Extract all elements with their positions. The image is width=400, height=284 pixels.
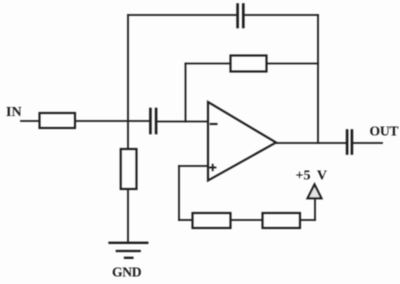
wire from IN [21, 120, 39, 122]
wire right vertical (feedback bus) [317, 15, 319, 143]
resistor R1 (input series) [40, 113, 76, 128]
wire ground resistor lead [127, 189, 129, 242]
resistor R5 (to ground) [121, 149, 137, 189]
svg-text:IN: IN [6, 105, 22, 120]
wire left vertical of bottom loop [178, 166, 180, 220]
svg-text:+5V: +5V [296, 169, 328, 184]
capacitor C1 (top feedback) [238, 5, 244, 28]
capacitor C2 (input coupling) [150, 109, 156, 133]
wire R2 to right vertical [267, 63, 319, 65]
ground [110, 243, 148, 258]
svg-text:OUT: OUT [370, 124, 399, 139]
op-amp minus marker [211, 123, 217, 125]
wire +5V riser [314, 199, 316, 221]
wire left vertical node to top feedback [127, 15, 129, 149]
op-amp plus marker [210, 165, 216, 171]
resistor R3 (bottom left) [193, 213, 231, 228]
wire top feedback right segment [245, 14, 319, 16]
capacitor C3 (output coupling) [347, 131, 352, 154]
wire C2 to op-amp inverting input [157, 121, 208, 123]
wire feedback to R2 [186, 63, 231, 65]
resistor R2 (feedback) [231, 56, 267, 72]
svg-text:GND: GND [112, 265, 142, 280]
power symbol +5V triangle [308, 185, 322, 199]
wire to R3 [179, 219, 192, 221]
resistor R4 (bottom right) [263, 213, 301, 228]
wire top feedback left segment [128, 14, 237, 16]
wire R3 to R4 [231, 219, 263, 221]
wire non-inverting input [179, 165, 208, 167]
wire vertical to R2 feedback [185, 64, 187, 122]
wire R4 to +5V riser [300, 219, 315, 221]
wire op-amp output [276, 142, 346, 144]
wire C3 to OUT [353, 142, 382, 144]
op-amp U1 [208, 102, 276, 181]
wire R1 to C2 [75, 120, 149, 122]
